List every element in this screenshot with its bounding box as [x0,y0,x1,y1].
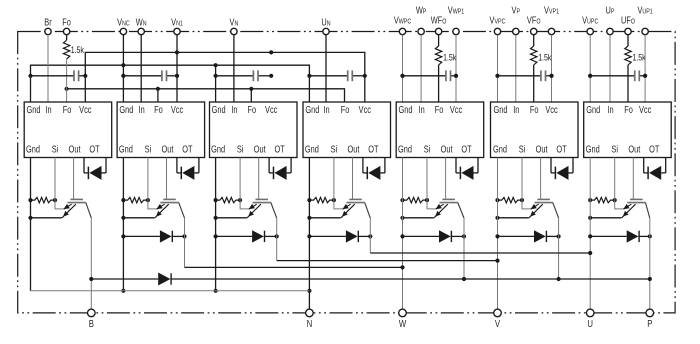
wire Q3 collector down [276,218,278,261]
wire Out gate drive U6 [540,158,542,200]
transistor Q4 (IGBT) [341,199,370,218]
wire Fo to U1 [66,59,68,102]
svg-text:In: In [323,104,329,115]
svg-text:Gnd: Gnd [305,104,319,115]
svg-text:1.5k: 1.5k [443,52,457,62]
resistor R5g (gate, U5) [400,197,429,202]
capacitor C7 [588,70,647,81]
svg-text:OT: OT [649,143,660,154]
svg-text:In: In [231,104,237,115]
terminal U [586,309,594,329]
wire Q1 collector to terminal B [89,218,93,310]
wire Q3 collector to V node [277,260,498,262]
diode D4b (freewheel, Q4) [309,230,372,242]
svg-text:Si: Si [52,143,59,154]
svg-text:In: In [139,104,145,115]
wire Out gate drive U5 [445,158,447,200]
resistor R3g (gate, U3) [214,197,243,202]
terminal B [88,309,96,329]
svg-text:OT: OT [556,143,567,154]
svg-text:Gnd: Gnd [211,143,225,154]
svg-text:Fo: Fo [624,104,633,115]
wire Gnd bus VNC (N-side common) [31,63,310,102]
wire emitter U7 to Gnd [588,216,621,220]
wire V_PC to U6 Gnd [495,35,499,102]
transistor Q3 (IGBT) [247,199,277,218]
resistor R1g (gate, U1) [28,197,57,202]
diode D2b (freewheel, Q2) [123,230,186,242]
svg-text:Gnd: Gnd [27,104,41,115]
driver IC U7 [584,102,672,158]
wire V_P1 to U6 Vcc [549,35,553,102]
wire Q2 collector to W node [185,266,403,268]
wire Si sense U4 [334,158,344,209]
terminal WN [136,17,147,35]
terminal Fo [62,17,71,35]
resistor R3 1.5k (fault pull-up U6) [531,35,553,102]
resistor R2 1.5k (fault pull-up U5) [435,35,457,102]
svg-text:Fo: Fo [62,17,71,28]
svg-text:Out: Out [536,143,548,154]
svg-text:B: B [89,318,94,329]
wire V_PC to U7 Gnd [588,35,592,102]
terminal UN [321,17,331,35]
svg-text:OT: OT [368,143,379,154]
terminal VN1 [171,17,183,35]
svg-text:1.5k: 1.5k [538,52,552,62]
svg-text:Fo: Fo [435,104,444,115]
wire Vcc bus VN1 (N-side supply) [85,50,365,102]
svg-text:In: In [607,104,613,115]
svg-text:OT: OT [461,143,472,154]
terminal VVP1 [544,4,559,34]
svg-text:Gnd: Gnd [119,104,133,115]
transistor Q6 (IGBT) [529,199,559,218]
terminal VVPC [490,14,506,34]
svg-text:Br: Br [44,17,51,28]
driver IC U5 [396,102,484,158]
resistor R6g (gate, U6) [495,197,524,202]
svg-text:Si: Si [611,143,618,154]
diode D5a (OT clamp, U5) [456,158,478,180]
svg-text:In: In [419,104,425,115]
transistor Q2 (IGBT) [155,199,185,218]
wire Q4 collector down [369,218,371,253]
svg-text:Out: Out [254,143,266,154]
wire N bus [31,290,310,292]
wire emitter U3 to Gnd [214,216,247,220]
wire Q5 collector to P bus [462,218,466,281]
wire Gnd stub to U3 [215,65,217,102]
svg-text:OT: OT [274,143,285,154]
wire U2 Gnd down to N bus [121,158,125,293]
driver IC U6 [491,102,579,158]
terminal W [399,309,407,329]
wire U1 Gnd down to N bus [30,158,32,291]
svg-text:Out: Out [162,143,174,154]
terminal VUPC [582,14,599,34]
wire WN to U2 In [140,35,142,102]
wire emitter U2 to Gnd [121,216,154,220]
driver IC U4 [303,102,391,158]
wire emitter U5 to Gnd [400,216,433,220]
wire Fo bus (N-side fault) [65,87,345,102]
wire Si sense U1 [55,158,65,209]
svg-text:Gnd: Gnd [586,143,600,154]
terminal UFO [621,14,635,34]
wire VNC to U2 Gnd [121,35,125,102]
wire emitter U6 to Gnd [495,216,528,220]
diode D6b (freewheel, Q6) [498,230,561,242]
terminal V [494,309,502,329]
svg-text:Out: Out [348,143,360,154]
wire Out gate drive U4 [352,158,354,200]
wire Si sense U7 [615,158,625,209]
svg-text:Fo: Fo [341,104,350,115]
svg-text:OT: OT [182,143,193,154]
svg-text:Si: Si [145,143,152,154]
transistor Q1 (IGBT) [62,199,91,218]
svg-text:1.5k: 1.5k [633,52,647,62]
driver IC U1 [24,102,112,158]
wire V_P1 to U7 Vcc [643,35,647,102]
wire Q7 collector to terminal P [648,218,652,310]
svg-text:Gnd: Gnd [494,104,508,115]
svg-text:Vcc: Vcc [79,104,92,115]
svg-text:Si: Si [331,143,338,154]
terminal VUP1 [637,4,653,34]
svg-text:Gnd: Gnd [586,104,600,115]
wire Br to U1 In [47,35,49,102]
capacitor C6 [495,70,553,81]
svg-text:Vcc: Vcc [171,104,184,115]
transistor Q5 (IGBT) [434,199,464,218]
svg-text:Gnd: Gnd [212,104,226,115]
terminal VWPC [394,14,412,34]
wire U6 Gnd down to terminal V [495,158,499,310]
svg-text:Fo: Fo [530,104,539,115]
diode D7b (freewheel, Q7) [590,230,652,242]
terminal P [646,309,654,329]
svg-text:Fo: Fo [154,104,163,115]
wire U7 Gnd down to terminal U [588,158,592,310]
svg-text:Vcc: Vcc [639,104,652,115]
capacitor C4 [307,70,367,81]
diode D5b (freewheel, Q5) [403,230,467,242]
svg-text:Out: Out [69,143,81,154]
svg-text:Fo: Fo [63,104,72,115]
svg-text:U: U [587,318,593,329]
svg-text:N: N [307,318,313,329]
wire U4 Gnd down to terminal N [307,158,311,310]
wire input to U7 In [609,35,611,102]
diode D1a (OT clamp, U1) [84,158,106,180]
wire Q4 collector to U node [370,252,590,254]
svg-text:Gnd: Gnd [399,104,413,115]
svg-text:Gnd: Gnd [493,143,507,154]
wire Q6 collector to P bus [557,218,561,281]
terminal N [306,309,314,329]
svg-text:Gnd: Gnd [26,143,40,154]
svg-text:1.5k: 1.5k [71,45,85,55]
diode D6a (OT clamp, U6) [551,158,573,180]
resistor R7g (gate, U7) [588,197,617,202]
wire Si sense U3 [240,158,250,209]
svg-text:Gnd: Gnd [305,143,319,154]
wire Fo stub to U2 [157,89,159,102]
diode D7a (OT clamp, U7) [644,158,666,180]
svg-text:W: W [399,318,407,329]
svg-text:OT: OT [89,143,100,154]
diode D3b (freewheel, Q3) [216,230,279,242]
svg-text:Si: Si [424,143,431,154]
wire U5 Gnd down to terminal W [400,158,404,310]
wire VN to U3 In [233,35,235,102]
svg-text:P: P [647,318,652,329]
resistor R4 1.5k (fault pull-up U7) [625,35,647,102]
driver IC U2 [117,102,205,158]
wire VN1 to U2 Vcc [175,35,179,102]
diode D3a (OT clamp, U3) [269,158,291,180]
wire Out gate drive U2 [166,158,168,200]
wire UN to U4 In [325,35,327,102]
svg-text:V: V [495,318,501,329]
terminal VP [512,4,520,34]
svg-text:Vcc: Vcc [450,104,463,115]
resistor R1 1.5k (Fo pull-up) [63,35,84,59]
svg-text:Vcc: Vcc [359,104,372,115]
wire input to U6 In [515,35,517,102]
svg-text:Fo: Fo [247,104,256,115]
svg-text:Si: Si [237,143,244,154]
svg-text:Out: Out [441,143,453,154]
wire emitter U4 to Gnd [307,216,340,220]
diode D2a (OT clamp, U2) [177,158,199,180]
wire input to U5 In [420,35,422,102]
terminal VNC [117,17,130,35]
module outline (dash-dot border) [18,32,675,313]
diode D1b (brake freewheel B to P) [91,273,650,286]
svg-text:Vcc: Vcc [265,104,278,115]
wire V_P1 to U5 Vcc [454,35,458,102]
wire V_PC to U5 Gnd [400,35,404,102]
terminal VN [230,17,239,35]
svg-text:Si: Si [519,143,526,154]
capacitor C5 [400,70,458,81]
wire Out gate drive U3 [258,158,260,200]
svg-text:In: In [45,104,51,115]
wire Si sense U2 [148,158,158,209]
wire Fo stub to U3 [250,89,252,102]
wire Out gate drive U7 [632,158,634,200]
wire Q2 collector down [184,218,186,267]
wire U3 Gnd down to N bus [214,158,218,293]
svg-text:In: In [513,104,519,115]
wire Si sense U5 [427,158,437,209]
resistor R4g (gate, U4) [307,197,336,202]
terminal WFO [431,14,447,34]
svg-text:Out: Out [628,143,640,154]
resistor R2g (gate, U2) [121,197,150,202]
terminal VWP1 [448,4,465,34]
wire Si sense U6 [522,158,532,209]
svg-text:Gnd: Gnd [119,143,133,154]
capacitor C1 [28,70,87,81]
terminal UP [606,4,615,34]
svg-text:Gnd: Gnd [398,143,412,154]
wire Out gate drive U1 [73,158,75,200]
transistor Q7 (IGBT) [622,199,650,218]
diode D4a (OT clamp, U4) [363,158,385,180]
capacitor C2 [121,70,179,81]
capacitor C3 [214,70,274,81]
terminal WP [416,4,427,34]
terminal VFO [527,14,541,34]
svg-text:Vcc: Vcc [545,104,558,115]
driver IC U3 [210,102,298,158]
terminal Br [44,17,51,35]
wire emitter U1 to Gnd [28,216,61,220]
